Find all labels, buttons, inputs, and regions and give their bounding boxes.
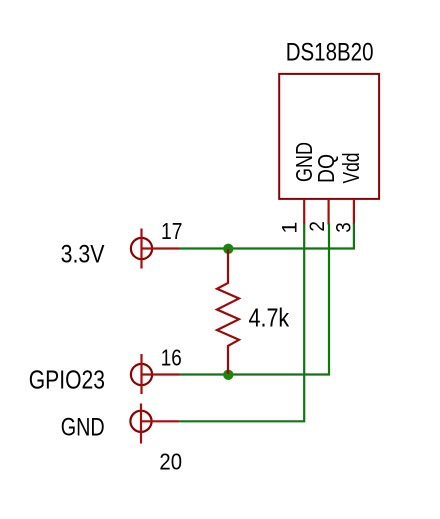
svg-text:3: 3 (331, 222, 355, 233)
svg-text:Vdd: Vdd (338, 153, 364, 184)
connector pin 16 (GPIO23): circle (131, 364, 152, 385)
svg-text:GND: GND (61, 414, 105, 442)
pin 1 stub (GND) (303, 200, 305, 225)
connector pin 17: vertical lead (140, 229, 142, 269)
svg-text:1: 1 (278, 222, 302, 234)
resistor R1 4.7k (zigzag with leads) (217, 249, 239, 374)
svg-text:16: 16 (161, 345, 182, 371)
wire 3.3V rail to Vdd riser corner (180, 224, 354, 249)
svg-text:GPIO23: GPIO23 (29, 365, 105, 395)
connector pin 17 (3.3V): circle (131, 238, 152, 259)
component U1 DS18B20 body (279, 74, 379, 199)
connector pin 16: vertical lead (140, 354, 142, 394)
pin 2 stub (DQ) (328, 200, 330, 225)
svg-text:2: 2 (305, 221, 329, 232)
connector pin 20: vertical lead (140, 404, 142, 444)
junction dot at resistor bottom / GPIO23 wire (223, 370, 233, 380)
svg-text:17: 17 (161, 218, 182, 244)
svg-text:20: 20 (159, 449, 182, 475)
wire GPIO23 to DQ riser corner (180, 224, 330, 375)
connector pin 16: horizontal stub (142, 373, 180, 375)
connector pin 20 (GND): circle (130, 411, 151, 432)
connector pin 17: horizontal stub (142, 247, 180, 249)
wire GND to pin1 riser corner (179, 224, 304, 421)
connector pin 20: horizontal stub (141, 420, 179, 422)
junction dot at resistor top / 3.3V rail (223, 244, 233, 254)
svg-text:4.7k: 4.7k (249, 303, 291, 333)
pin 3 stub (Vdd) (353, 200, 355, 225)
svg-text:3.3V: 3.3V (61, 241, 105, 269)
svg-text:DS18B20: DS18B20 (286, 39, 374, 67)
svg-text:DQ: DQ (313, 154, 339, 183)
